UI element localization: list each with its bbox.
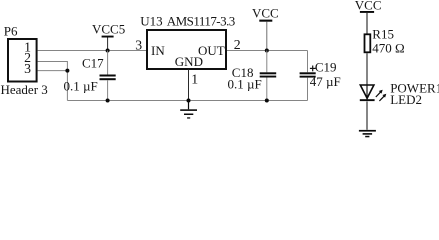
svg-text:AMS1117-3.3: AMS1117-3.3 — [167, 13, 236, 28]
wire P6 pin1 to U13 IN — [38, 50, 148, 52]
svg-text:VCC: VCC — [355, 0, 382, 13]
power symbol VCC right — [360, 11, 374, 13]
svg-text:IN: IN — [151, 43, 165, 58]
svg-text:P6: P6 — [4, 24, 18, 39]
svg-text:2: 2 — [234, 37, 241, 52]
wire LED to ground — [366, 101, 368, 129]
junction dot VCC/C18 — [265, 49, 269, 53]
ground rail wire — [67, 100, 307, 102]
junction dot C17 bottom — [106, 99, 110, 103]
svg-text:LED2: LED2 — [390, 92, 422, 107]
ground symbol right — [359, 130, 376, 137]
capacitor C17 — [107, 51, 109, 75]
svg-text:GND: GND — [175, 54, 203, 69]
svg-text:VCC5: VCC5 — [92, 22, 125, 37]
svg-text:U13: U13 — [140, 13, 162, 28]
svg-text:3: 3 — [24, 61, 31, 76]
polarity plus sign C19 — [310, 66, 316, 72]
svg-text:0.1 µF: 0.1 µF — [64, 78, 98, 93]
wire P6 pin2 to vertical — [38, 62, 68, 101]
wire U13 GND to rail — [188, 70, 190, 101]
junction dot C18 bottom — [265, 99, 269, 103]
svg-text:47 µF: 47 µF — [310, 74, 341, 89]
LED diode POWER1 LED2 — [366, 85, 368, 99]
junction dot VCC5/C17 — [106, 49, 110, 53]
junction dot pin3 — [65, 69, 69, 73]
svg-text:Header 3: Header 3 — [1, 82, 48, 97]
wire P6 pin3 — [38, 70, 68, 72]
svg-text:C17: C17 — [82, 55, 104, 70]
svg-text:3: 3 — [135, 37, 142, 52]
power symbol VCC5 — [102, 36, 114, 38]
LED light arrows — [376, 90, 387, 101]
wire U13 OUT to C19 — [227, 50, 308, 52]
ground symbol middle — [180, 101, 197, 119]
svg-text:VCC: VCC — [252, 6, 279, 21]
resistor R15 — [365, 34, 371, 52]
svg-text:0.1 µF: 0.1 µF — [228, 77, 262, 92]
wire R15 to LED — [366, 53, 368, 85]
svg-text:C19: C19 — [315, 59, 337, 74]
power symbol VCC middle — [259, 20, 272, 22]
connector P6 box — [8, 39, 37, 82]
svg-text:470 Ω: 470 Ω — [372, 40, 404, 55]
capacitor C19 — [307, 51, 309, 73]
capacitor C18 — [266, 51, 268, 73]
svg-text:1: 1 — [191, 71, 198, 86]
regulator U13 box — [147, 30, 226, 69]
junction dot GND rail — [187, 99, 191, 103]
